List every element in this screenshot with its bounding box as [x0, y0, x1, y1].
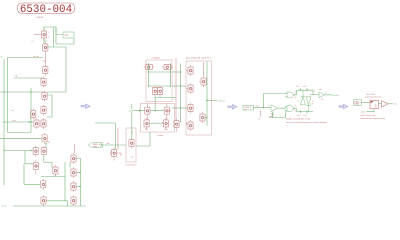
gate G1 tails [286, 93, 287, 97]
current bias box [126, 128, 136, 162]
transistor Q31 [188, 83, 193, 94]
port ram in [354, 100, 362, 106]
transistor Q27 [164, 105, 169, 116]
node dot ff2 [170, 71, 171, 72]
red tick pair top [48, 141, 50, 143]
wire latch to buf [378, 103, 381, 105]
red tick q35 [206, 117, 208, 120]
wire port to bias box [103, 144, 127, 146]
svg-text:phiB: phiB [129, 110, 134, 112]
node dot l2 [180, 85, 181, 86]
transistor Q3 [43, 65, 48, 76]
transistor Q22 [144, 64, 155, 69]
wire q34 lead up [199, 62, 204, 82]
transistor Q20 [111, 148, 116, 159]
transistor Q17 [71, 153, 76, 164]
cap stub c3 [306, 88, 308, 90]
wire top rail [297, 89, 314, 91]
transistor Q15 [41, 179, 46, 190]
svg-text:current bias: current bias [125, 164, 137, 167]
node dot c2 [80, 186, 81, 187]
transistor Q26 [145, 105, 150, 116]
amp U2 [319, 92, 325, 98]
node dot l1 [180, 71, 181, 72]
transistor Q5 [42, 91, 47, 102]
wire x31 link [30, 88, 32, 133]
node dot y150b [30, 150, 31, 151]
wire Q20 source down [113, 159, 115, 161]
svg-text:not at extremely-inaccurate de: not at extremely-inaccurate delays [286, 121, 328, 124]
wire port to latch [362, 102, 371, 104]
gate G2 tails [286, 107, 287, 111]
wire left rail 2 [8, 58, 32, 133]
diode D1 [301, 90, 306, 105]
node dot out [206, 100, 207, 101]
wire low rail [269, 110, 286, 117]
transistor Q1 [41, 29, 46, 40]
transistor Q19b [71, 195, 76, 206]
diode D2 [306, 97, 311, 112]
node dot y150 [3, 150, 4, 151]
gate box top [63, 32, 74, 38]
svg-text:phi2: phi2 [361, 112, 366, 114]
node dot x31a [30, 91, 31, 92]
off-page arrow C [339, 104, 348, 109]
svg-text:r rlf: r rlf [14, 75, 18, 78]
buffer U1 [271, 105, 278, 112]
wire y78 [14, 77, 42, 79]
wire pullup pair link [149, 122, 163, 124]
transistor Q25 [157, 86, 162, 97]
transistor Q32 [188, 103, 193, 114]
transistor Q23 [162, 64, 173, 69]
svg-text:r 5: r 5 [31, 40, 34, 43]
node dot buf [263, 107, 264, 108]
svg-text:2: 2 [48, 32, 50, 34]
latch inner marks [374, 105, 377, 107]
pushpull driver box [186, 61, 212, 135]
transistor Q21 [129, 138, 134, 149]
transistor Q24 [152, 86, 157, 97]
transistor Q35 [200, 112, 205, 123]
wire up to gate1 [264, 94, 288, 108]
svg-text:RAM: RAM [354, 103, 359, 106]
red tick below Q13 [35, 172, 37, 175]
node dot x31b [30, 121, 31, 122]
transistor Q2 [43, 42, 48, 53]
wire g2 to rail [295, 109, 297, 112]
port phi2 in [243, 105, 254, 110]
buffer U4 [382, 101, 389, 108]
svg-text:FB1: FB1 [65, 35, 70, 37]
wire link y72 [172, 71, 181, 73]
transistor Q6b [31, 109, 36, 120]
transistor Q36 [174, 119, 179, 130]
wire y164 [25, 151, 33, 164]
svg-text:c2+: c2+ [296, 86, 300, 88]
wire ff down to pullup [154, 98, 156, 111]
transistor Q11 [41, 146, 46, 157]
transistor Q10 [33, 146, 38, 157]
node dot y122 [3, 121, 4, 122]
wire bias to pullup [136, 132, 150, 146]
wire gate stubs [186, 71, 188, 89]
wire Q1 drain down [44, 38, 47, 44]
svg-text:c1: c1 [258, 119, 261, 121]
cap stub c4 [300, 112, 302, 114]
latch corner mark [371, 101, 373, 103]
svg-text:pullup: pullup [158, 135, 165, 137]
svg-text:X ROM: X ROM [36, 17, 43, 19]
wire out [388, 103, 393, 105]
wire Q2 drain right [47, 47, 66, 92]
node dot y92 [3, 91, 4, 92]
node dot r2 [306, 90, 307, 91]
transistor Q8 [41, 118, 46, 129]
svg-text:1: 1 [48, 37, 50, 39]
wire buffer out [278, 107, 286, 109]
svg-text:res b: res b [2, 205, 8, 208]
transistor Q30 [188, 65, 193, 76]
transistor Q29 [163, 118, 168, 129]
transistor Q19 [71, 181, 76, 192]
port phi1 chevron [101, 144, 103, 147]
wire red lead above column [74, 144, 76, 153]
svg-text:A: A [162, 122, 164, 125]
wire y138 [0, 137, 42, 139]
svg-text:r b: r b [11, 109, 14, 112]
red tick c [259, 111, 261, 117]
svg-text:+5v: +5v [319, 89, 323, 91]
node dot l3 [180, 107, 181, 108]
wire ff bottom [155, 97, 176, 98]
wire port to junction [254, 107, 272, 109]
node dot ff down [155, 110, 156, 111]
node dot q11 top [46, 143, 47, 144]
wire y150 [4, 150, 33, 152]
node feedback loop top [44, 27, 56, 47]
gate G2 [287, 106, 293, 112]
transistor Q4 [41, 77, 46, 88]
svg-text:6530-004: 6530-004 [20, 4, 72, 16]
wire vertical into Q20 [95, 123, 115, 150]
node dot ff4 [170, 85, 171, 86]
wire right column [70, 158, 80, 206]
wire driver output [207, 100, 218, 102]
wire y122 [4, 121, 34, 123]
wire rail to amp [310, 90, 319, 94]
wire Q20 drain right [117, 153, 121, 156]
svg-text:2-0: 2-0 [256, 106, 260, 108]
node dot r1 [300, 90, 301, 91]
svg-text:borrowed from original circuit: borrowed from original circuitry [361, 117, 386, 120]
svg-text:3: 3 [295, 106, 297, 108]
gate G1 bubble [293, 94, 294, 95]
wire pullup vert leads [147, 104, 167, 120]
cap stub c2 [300, 88, 302, 90]
node dot r4 [306, 111, 307, 112]
svg-text:w nor: w nor [34, 55, 40, 58]
node dot q7 [28, 121, 29, 122]
title box 6530-004 [18, 3, 75, 14]
off-page arrow A [81, 104, 90, 109]
wire latch phi2 [366, 109, 374, 112]
wire q15 [24, 164, 40, 185]
transistor Q18 [71, 167, 76, 178]
port phi1 [88, 143, 102, 148]
svg-text:digi restart only: digi restart only [361, 114, 377, 117]
red tick right [169, 110, 171, 113]
wire link y86 [172, 85, 186, 87]
wire ff rails [148, 63, 170, 86]
wire Q20 gate from above [117, 128, 119, 150]
gate G1 [287, 92, 293, 98]
wire left rail top [4, 58, 43, 186]
transistor Q6 [41, 105, 46, 116]
wire phiB into pullup [134, 110, 165, 112]
transistor Q13 [33, 160, 38, 171]
svg-text:phi2-0: phi2-0 [219, 100, 226, 102]
cap stub c5 [306, 112, 308, 114]
transistor Q7 [34, 118, 39, 129]
red tick under amp [321, 98, 323, 100]
node Q2-Q3 [44, 53, 46, 66]
svg-text:1: 1 [268, 106, 270, 108]
wire RES rail bottom [13, 205, 86, 207]
wire link y108 [172, 107, 188, 109]
svg-text:phi2o: phi2o [334, 95, 340, 97]
gate G2 bubble [293, 108, 294, 109]
svg-text:out: out [394, 103, 397, 106]
wire bottom rail [297, 111, 314, 113]
svg-text:6: 6 [295, 97, 297, 99]
RR flipflop box [146, 60, 172, 102]
red tick below Q21 [131, 156, 134, 158]
svg-text:c3+: c3+ [303, 86, 307, 88]
wire stub q11 top [45, 144, 47, 148]
wire q14 top [44, 155, 52, 167]
wire red bus [175, 58, 177, 121]
latch box U3 [370, 100, 378, 108]
wire pushpull vertical [205, 62, 207, 126]
svg-text:rr flipflop: rr flipflop [152, 57, 161, 60]
transistor Q14 [53, 165, 58, 176]
transistor Q33 [188, 120, 193, 131]
transistor Q28 [144, 118, 149, 129]
svg-text:pushpull driver: pushpull driver [186, 57, 211, 60]
svg-text:+7l: +7l [310, 104, 313, 106]
pullup box [141, 104, 175, 133]
wire Q5 bypass [47, 95, 52, 117]
svg-text:3: 3 [314, 91, 316, 93]
node dot ff3 [148, 85, 149, 86]
red tick box c [186, 123, 188, 125]
node dot ff1 [148, 71, 149, 72]
wire q36 lead [176, 130, 178, 132]
wire Q1 gate [34, 34, 42, 36]
wire bias gate feed [131, 104, 133, 139]
svg-text:c5+: c5+ [304, 115, 308, 117]
node dot r3 [300, 111, 301, 112]
wire gate box loop [56, 27, 74, 44]
wire pullup bottom ticks [145, 127, 167, 130]
wire g1 to rail [295, 90, 297, 95]
ground cap [271, 112, 274, 118]
svg-text:begin amplitude only: begin amplitude only [286, 118, 311, 121]
svg-text:c4+: c4+ [297, 115, 301, 117]
wire q14 bottom [41, 162, 68, 206]
node dot c1 [80, 172, 81, 173]
junction tick [43, 60, 46, 62]
wire amp out [325, 94, 334, 96]
buffer U4 tick [383, 105, 386, 107]
off-page arrow B [228, 105, 237, 110]
wire green bus [181, 64, 182, 123]
transistor Q16 [41, 195, 46, 206]
svg-text:transparent latch: transparent latch [365, 96, 382, 99]
wire y92 [0, 91, 44, 93]
svg-text:RES: RES [93, 146, 98, 148]
transistor Q34 [201, 76, 206, 87]
svg-text:2: 2 [298, 101, 300, 103]
svg-text:res: res [0, 56, 4, 59]
transistor Q9 [42, 133, 47, 144]
